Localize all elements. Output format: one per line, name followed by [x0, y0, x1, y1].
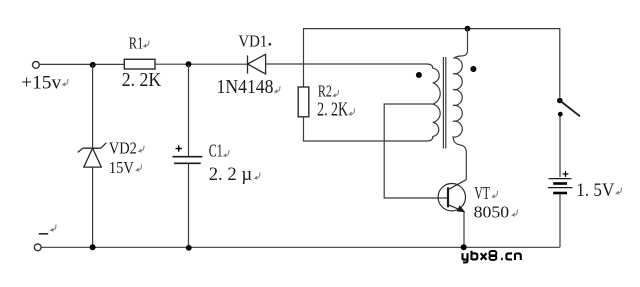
- wire secondary top rail: [304, 29, 560, 98]
- svg-text:R1: R1: [129, 34, 144, 53]
- diode VD1: [248, 54, 266, 74]
- svg-text:1. 5V: 1. 5V: [576, 180, 614, 201]
- emitter wire down: [463, 212, 465, 247]
- wire battery to bottom rail: [559, 195, 561, 248]
- svg-text:1N4148: 1N4148: [217, 77, 274, 98]
- resistor R2: [298, 87, 309, 117]
- capacitor C1: [188, 64, 190, 156]
- collector line: [448, 180, 466, 190]
- zener diode VD2: [92, 64, 94, 148]
- svg-text:C1: C1: [209, 141, 223, 161]
- node junction B: [186, 61, 192, 67]
- node junction C: [90, 244, 96, 250]
- polarity dot primary: [416, 72, 422, 78]
- transformer primary winding: [421, 64, 440, 141]
- wire VD1 to transformer primary: [266, 63, 427, 65]
- svg-text:2. 2K: 2. 2K: [122, 70, 162, 91]
- wire bottom rail: [41, 246, 560, 248]
- wire R1 to VD1: [155, 63, 248, 65]
- transformer secondary winding: [455, 29, 468, 58]
- plus sign C1: [176, 145, 182, 151]
- switch: [557, 98, 563, 104]
- polarity dot secondary: [470, 66, 476, 72]
- node junction D: [186, 245, 192, 251]
- svg-text:+15v: +15v: [21, 74, 62, 94]
- resistor R1: [124, 59, 155, 69]
- transformer core: [443, 57, 445, 149]
- wire top rail left: [39, 63, 124, 65]
- svg-text:VT: VT: [474, 183, 490, 203]
- svg-text:8050: 8050: [474, 202, 510, 221]
- svg-text:2. 2 µ: 2. 2 µ: [209, 164, 253, 185]
- node junction E: [465, 26, 471, 32]
- watermark ybx8.cn: [463, 251, 521, 263]
- terminal output -: [34, 244, 41, 251]
- svg-text:2. 2K: 2. 2K: [317, 100, 348, 121]
- svg-text:VD1: VD1: [238, 32, 267, 51]
- transistor VT: [438, 184, 465, 211]
- battery 1.5V: [549, 178, 572, 180]
- svg-text:15V: 15V: [109, 158, 135, 177]
- wire feedback tap to base: [384, 104, 448, 198]
- node junction A: [90, 62, 96, 68]
- node junction F: [461, 244, 467, 250]
- svg-text:R2: R2: [318, 82, 332, 101]
- terminal input +: [33, 62, 40, 69]
- emitter line with arrow: [448, 205, 464, 212]
- svg-text:VD2: VD2: [109, 139, 137, 158]
- plus sign battery: [563, 171, 569, 177]
- wire R2 bottom to primary bottom: [304, 117, 422, 141]
- label minus: [39, 233, 48, 235]
